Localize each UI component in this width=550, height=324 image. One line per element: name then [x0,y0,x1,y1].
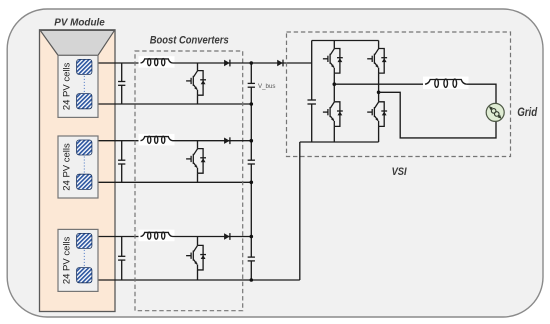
wire PV3 top [91,236,141,238]
wire PV2 bottom [91,181,251,183]
inductor L1 [139,56,175,67]
wire PV3 bottom [91,279,300,281]
wire PV2 top [91,140,141,142]
VSI left rail with capacitor [307,41,316,143]
capacitor Cin2 [118,141,125,183]
svg-text:Boost Converters: Boost Converters [150,34,229,46]
IGBT Q6 lower left leg [323,102,343,142]
grid source [486,103,504,121]
wire L2 to rail [173,140,252,142]
IGBT Q7 lower right leg [367,102,387,142]
IGBT Q2 [186,141,206,183]
wire VSI return [299,142,301,280]
IGBT Q5 upper right leg [367,41,387,102]
wire phase A to filter [334,83,425,85]
IGBT Q4 upper left leg [323,41,343,102]
DC-link capacitor C3 [248,257,255,261]
node phase A [333,82,337,86]
svg-text:V_bus: V_bus [258,83,276,90]
DC-link capacitor C1 [248,83,255,87]
node bus j4 [250,235,254,239]
wire grid return [379,92,496,138]
diode D4 [277,60,283,67]
node bus bottom [250,278,254,282]
inductor Lf [423,77,469,90]
VSI bottom rail [300,141,379,143]
IGBT Q3 [186,237,206,281]
diode D1 [224,60,230,67]
IGBT Q1 [186,63,206,104]
boost converters dashed box [135,51,243,311]
wire PV1 top [91,62,141,64]
VSI top rail [312,40,379,42]
PV module trapezoid [40,30,114,55]
svg-text:Grid: Grid [517,105,537,119]
PV string 1 [58,55,98,117]
node phase B [377,91,381,95]
node bus j3 [250,181,254,185]
capacitor Cin1 [118,63,125,104]
DC bus rail [250,63,252,280]
wire L3 to rail [173,236,252,238]
wire L1 to rail [173,62,252,64]
diode D3 [224,233,230,240]
PV module body [40,30,116,312]
wire bus to VSI [251,62,311,64]
diode D2 [224,137,230,144]
node bus top [250,61,254,65]
svg-text:PV Module: PV Module [54,18,105,29]
PV string 2 [58,136,98,198]
capacitor Cin3 [118,237,125,281]
PV string 3 [58,229,98,291]
node bus j1 [250,102,254,106]
inductor L3 [139,230,175,242]
wire filter to grid [466,84,496,104]
inductor L2 [139,134,175,146]
VSI dashed box [287,32,511,157]
wire PV1 bottom [91,103,251,105]
node bus j2 [250,139,254,143]
DC-link capacitor C2 [248,160,255,164]
svg-text:VSI: VSI [392,166,408,178]
